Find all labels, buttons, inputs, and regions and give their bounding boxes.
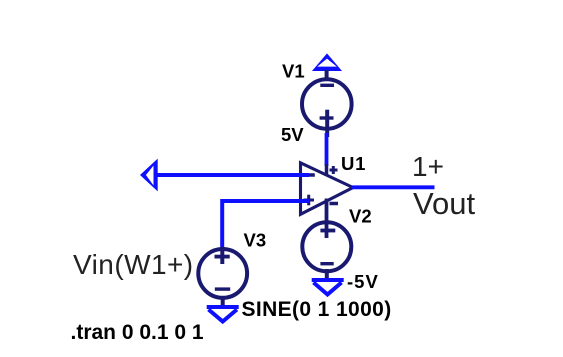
V3 pin top	[220, 247, 224, 264]
ground below V2	[312, 280, 344, 295]
U1 V- pin	[325, 199, 329, 239]
wire V1 to op-amp V+	[325, 133, 329, 166]
V3 pin bottom	[221, 296, 225, 306]
svg-text:Vin(W1+): Vin(W1+)	[73, 249, 194, 280]
svg-text:Vout: Vout	[413, 186, 475, 221]
V1 pin top	[325, 70, 329, 81]
voltage source V3	[198, 249, 247, 298]
U1 V- minus mark	[330, 202, 339, 206]
svg-text:.tran 0 0.1 0 1: .tran 0 0.1 0 1	[71, 321, 204, 344]
U1 inverting input minus mark	[301, 173, 314, 177]
svg-text:U1: U1	[341, 153, 366, 174]
svg-text:5V: 5V	[281, 124, 304, 145]
voltage source V1	[302, 79, 352, 129]
U1 V+ pin	[325, 164, 329, 176]
wire V3 to non-inverting input	[222, 201, 309, 248]
svg-text:V2: V2	[349, 206, 372, 227]
svg-text:V3: V3	[244, 230, 267, 251]
net flag (flipped ground) above V1	[312, 53, 342, 71]
U1 V+ plus mark	[330, 169, 338, 172]
ground below V3	[207, 307, 239, 322]
svg-text:SINE(0 1 1000): SINE(0 1 1000)	[242, 298, 392, 321]
svg-text:-5V: -5V	[347, 271, 379, 292]
svg-text:V1: V1	[282, 61, 305, 82]
voltage source V2	[302, 222, 351, 271]
output wire Vout	[352, 185, 435, 189]
left arrow net flag	[140, 159, 158, 192]
V2 pin bottom	[325, 269, 329, 280]
U1 non-inverting input plus mark	[304, 199, 315, 202]
op-amp U1	[301, 163, 354, 215]
wire to inverting input	[155, 173, 309, 177]
svg-text:1+: 1+	[412, 151, 444, 182]
